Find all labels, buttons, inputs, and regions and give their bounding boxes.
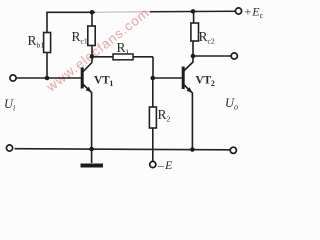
resistor R1	[92, 54, 153, 60]
wire bottom ground rail	[15, 149, 231, 150]
ground	[81, 149, 104, 166]
transistor VT2	[183, 62, 193, 150]
terminal output bottom	[230, 147, 236, 153]
wire R2 to -E	[152, 128, 154, 162]
terminal output top	[231, 53, 237, 59]
node VT1 emitter-rail junction	[89, 147, 94, 152]
node Rb1-base junction	[45, 76, 50, 81]
resistor R2	[149, 78, 156, 128]
node VT2 emitter-rail junction	[190, 147, 195, 152]
wire collector to output	[193, 55, 231, 57]
terminal input bottom	[6, 145, 12, 151]
resistor Rc1	[88, 12, 95, 63]
resistor Rb1	[44, 33, 51, 79]
wire R1 to VT2 base	[153, 57, 182, 78]
node VT2 collector junction	[191, 54, 196, 59]
terminal -E	[150, 161, 156, 167]
resistor Rc2	[191, 11, 199, 63]
node R1-R2-base junction	[151, 76, 156, 81]
node VT1 collector junction	[90, 54, 95, 59]
wire top supply rail	[47, 11, 236, 32]
svg-text:– E: – E	[157, 158, 173, 172]
wire VT1 base	[16, 77, 81, 79]
node rail-Rc1 junction	[90, 10, 95, 15]
terminal input top	[10, 75, 16, 81]
node rail-Rc2 junction	[191, 9, 196, 14]
transistor VT1	[82, 63, 92, 150]
terminal +Ec	[235, 8, 241, 14]
